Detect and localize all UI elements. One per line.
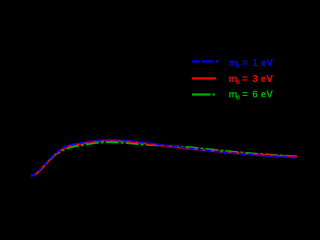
curve m_d = 3 eV (red solid) [33,141,297,176]
legend sample line 2 (red solid) [192,77,216,79]
curve m_d = 6 eV (green dash-dot) [36,142,297,174]
curve m_d = 1 eV (blue dashed) [31,140,297,177]
legend sample line 1 (blue dashed) [192,60,218,62]
chart canvas [0,0,299,204]
blue curve start tick [31,174,35,177]
legend sample line 3 (green dash-dot) [192,93,215,95]
